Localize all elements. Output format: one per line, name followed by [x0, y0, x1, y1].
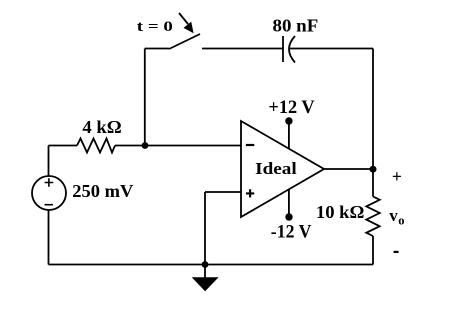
svg-text:o: o [398, 214, 404, 228]
svg-text:80 nF: 80 nF [273, 15, 319, 35]
svg-text:10 kΩ: 10 kΩ [316, 202, 365, 222]
svg-text:+: + [392, 167, 402, 187]
svg-text:250 mV: 250 mV [72, 181, 133, 201]
svg-text:v: v [389, 206, 398, 225]
svg-text:-12 V: -12 V [271, 223, 312, 243]
svg-text:4 kΩ: 4 kΩ [82, 117, 121, 137]
svg-text:Ideal: Ideal [255, 159, 297, 178]
svg-text:t = 0: t = 0 [137, 19, 173, 35]
svg-text:+12 V: +12 V [268, 98, 315, 118]
